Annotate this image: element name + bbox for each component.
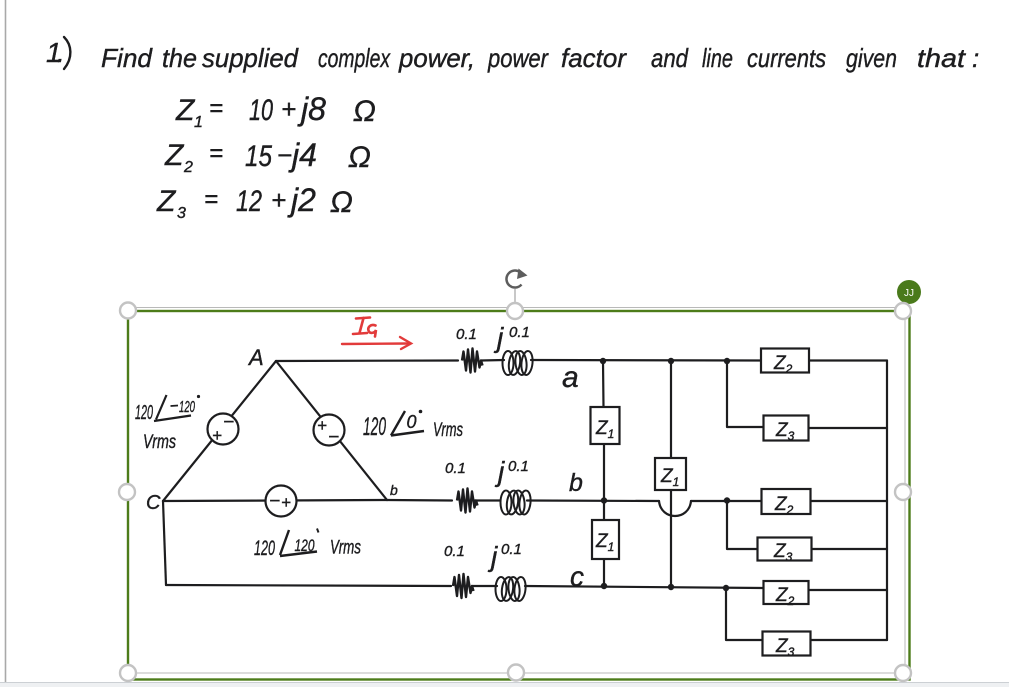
wire phase a line bbox=[276, 359, 458, 362]
svg-text:0.1: 0.1 bbox=[509, 324, 530, 341]
svg-text:−: − bbox=[328, 427, 339, 448]
svg-text:+: + bbox=[281, 493, 291, 512]
green selection border bbox=[128, 311, 910, 680]
svg-text:120: 120 bbox=[295, 536, 315, 555]
svg-text:Vrms: Vrms bbox=[330, 538, 361, 559]
handle mid-left bbox=[119, 484, 135, 500]
label j0.1 phase b bbox=[494, 456, 529, 487]
rotate handle bbox=[506, 269, 527, 304]
svg-text:Z: Z bbox=[164, 139, 185, 172]
svg-text:12: 12 bbox=[236, 185, 262, 218]
bottom scrollbar strip bbox=[0, 683, 1009, 687]
handle bottom-left bbox=[120, 665, 136, 681]
handle top-middle bbox=[507, 303, 523, 319]
source label 120 angle 0 Vrms bbox=[363, 410, 463, 441]
svg-text:+: + bbox=[317, 416, 327, 435]
svg-text:0.1: 0.1 bbox=[444, 543, 465, 560]
load box Z3 phase b bbox=[758, 538, 812, 565]
svg-text:Ω: Ω bbox=[353, 95, 376, 128]
label j0.1 phase c bbox=[487, 541, 522, 572]
svg-text::: : bbox=[972, 43, 979, 73]
resistor 0.1 phase c bbox=[453, 574, 474, 598]
svg-text:120: 120 bbox=[179, 399, 195, 416]
svg-text:given: given bbox=[846, 43, 897, 73]
load box Z3 phase a bbox=[764, 416, 809, 444]
svg-text:Vrms: Vrms bbox=[143, 432, 176, 453]
svg-text:a: a bbox=[562, 361, 579, 394]
svg-text:+: + bbox=[281, 94, 296, 124]
wire vertical b-c through Z1 bbox=[603, 501, 605, 521]
handle top-left bbox=[120, 303, 136, 319]
inductor j0.1 phase c bbox=[496, 576, 527, 601]
svg-text:+: + bbox=[212, 426, 222, 445]
wire Z2c output bbox=[809, 589, 888, 591]
current arrow Ia (red) bbox=[342, 337, 411, 349]
wire Z3b output bbox=[812, 548, 888, 550]
load box Z1 between b and c bbox=[592, 520, 619, 559]
svg-text:0.1: 0.1 bbox=[508, 458, 529, 475]
handle top-right bbox=[895, 303, 911, 319]
wire Z2b output bbox=[811, 500, 888, 502]
inductor j0.1 phase b bbox=[501, 490, 532, 515]
collaborator avatar JJ bbox=[897, 280, 921, 304]
svg-text:Z: Z bbox=[175, 94, 196, 127]
current label Ia (red) bbox=[353, 318, 376, 337]
svg-text:120: 120 bbox=[363, 413, 386, 441]
source label 120 angle 120 Vrms bbox=[254, 529, 361, 561]
svg-text:.: . bbox=[57, 37, 65, 68]
svg-text:A: A bbox=[247, 345, 264, 370]
node b junction 1 bbox=[601, 497, 607, 503]
svg-text:that: that bbox=[917, 43, 967, 73]
svg-text:0.1: 0.1 bbox=[456, 326, 477, 343]
wire vertical a-c through Z1 bbox=[670, 361, 672, 458]
source Vab 120angle0 circle bbox=[314, 415, 345, 449]
page left margin line bbox=[5, 0, 7, 682]
svg-text:JJ: JJ bbox=[904, 288, 914, 299]
source Vbc 120angle120 circle bbox=[266, 486, 297, 517]
svg-text:factor: factor bbox=[561, 43, 627, 73]
svg-text:C: C bbox=[146, 492, 161, 514]
wire triangle bottom C-B bbox=[163, 500, 387, 501]
wire right bus bbox=[886, 361, 888, 641]
svg-text:line: line bbox=[702, 43, 733, 73]
load box Z2 phase b bbox=[762, 489, 811, 517]
wire branch b to Z3 bbox=[727, 501, 758, 550]
wire triangle leg A-B bbox=[276, 361, 387, 500]
wire phase b line bbox=[387, 499, 452, 502]
svg-text:0: 0 bbox=[407, 412, 417, 432]
svg-text:−: − bbox=[223, 412, 234, 433]
svg-text:120: 120 bbox=[254, 537, 275, 560]
svg-text:power: power bbox=[487, 43, 549, 73]
handle bottom-right bbox=[895, 665, 911, 681]
junction node dots bbox=[600, 358, 730, 591]
node a junction 2 bbox=[668, 358, 674, 364]
wire C down to phase c line bbox=[163, 501, 166, 585]
value line Z1 = 10 + j8 ohm bbox=[175, 91, 376, 131]
svg-text:3: 3 bbox=[177, 205, 186, 222]
svg-text:+: + bbox=[271, 185, 286, 215]
node c junction 2 bbox=[668, 584, 674, 590]
svg-text:1: 1 bbox=[194, 114, 203, 131]
load box Z1 between a and c bbox=[655, 458, 686, 490]
svg-text:b: b bbox=[569, 469, 583, 497]
svg-text:Vrms: Vrms bbox=[433, 420, 463, 441]
load box Z2 phase a bbox=[761, 349, 809, 377]
node a junction 3 bbox=[724, 358, 730, 364]
wire phase c line bbox=[166, 585, 451, 586]
svg-text:and: and bbox=[651, 43, 689, 73]
svg-text:0.1: 0.1 bbox=[445, 460, 466, 477]
wire vertical a-b through Z1 bbox=[602, 361, 605, 407]
picture object faint border bbox=[128, 308, 906, 674]
svg-text:15: 15 bbox=[245, 140, 272, 173]
node c junction 1 bbox=[601, 583, 607, 589]
wire branch a to Z3 bbox=[727, 361, 764, 427]
svg-text:Ω: Ω bbox=[330, 186, 353, 219]
svg-text:120: 120 bbox=[135, 402, 153, 424]
svg-text:j8: j8 bbox=[297, 91, 326, 127]
handle bottom-middle bbox=[508, 665, 524, 681]
wire branch c to Z3 bbox=[726, 588, 763, 640]
value line Z2 = 15 - j4 ohm bbox=[164, 137, 371, 176]
svg-text:Find: Find bbox=[101, 43, 154, 73]
wire hop on phase b line bbox=[659, 501, 691, 516]
node c junction 3 bbox=[723, 585, 729, 591]
svg-text:complex: complex bbox=[318, 43, 391, 73]
svg-text:j4: j4 bbox=[288, 137, 317, 173]
handle mid-right bbox=[895, 484, 911, 500]
svg-text:c: c bbox=[570, 561, 584, 592]
svg-text:Z: Z bbox=[156, 185, 177, 218]
svg-text:the: the bbox=[162, 43, 197, 73]
wire Z3a output bbox=[809, 427, 888, 429]
source label 120 angle -120 Vrms bbox=[135, 395, 200, 453]
source Vca 120angle-120 circle bbox=[208, 412, 239, 445]
wire Z3c output bbox=[811, 639, 888, 641]
svg-text:b: b bbox=[390, 482, 398, 498]
load box Z1 between a and b bbox=[591, 407, 620, 444]
load box Z2 phase c bbox=[764, 581, 809, 608]
svg-text:currents: currents bbox=[747, 43, 826, 73]
svg-text:−: − bbox=[269, 491, 280, 512]
svg-text:0.1: 0.1 bbox=[501, 541, 522, 558]
svg-text:j2: j2 bbox=[287, 182, 316, 218]
svg-text:=: = bbox=[204, 186, 218, 213]
node b junction 2 bbox=[724, 497, 730, 503]
node a junction 1 bbox=[600, 358, 606, 364]
svg-text:−: − bbox=[277, 140, 292, 170]
svg-text:10: 10 bbox=[249, 94, 273, 127]
svg-text:2: 2 bbox=[183, 159, 193, 176]
svg-text:supplied: supplied bbox=[202, 43, 300, 73]
inductor j0.1 phase a bbox=[503, 350, 534, 375]
load box Z3 phase c bbox=[763, 632, 811, 660]
svg-text:=: = bbox=[209, 140, 223, 167]
svg-text:Ω: Ω bbox=[348, 141, 371, 174]
wire Z2a output bbox=[809, 359, 887, 361]
value line Z3 = 12 + j2 ohm bbox=[156, 182, 353, 222]
wire triangle leg A-C bbox=[163, 361, 276, 501]
resistor 0.1 phase a bbox=[462, 349, 483, 373]
svg-text:=: = bbox=[209, 95, 223, 122]
resistor 0.1 phase b bbox=[457, 489, 478, 513]
label j0.1 phase a bbox=[493, 322, 530, 353]
svg-text:power,: power, bbox=[398, 43, 475, 73]
